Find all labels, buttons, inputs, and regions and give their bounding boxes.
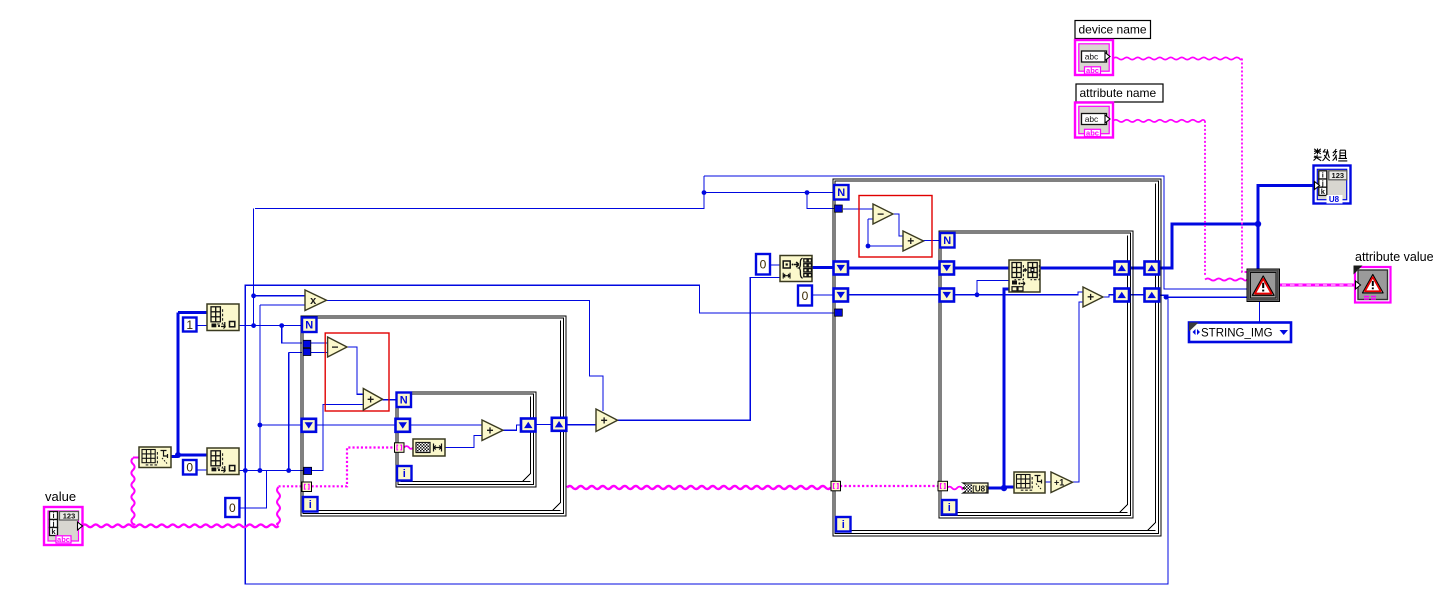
svg-text:−: − <box>331 340 338 354</box>
wire vertical x253 <box>253 209 255 326</box>
wire pink value out <box>82 524 279 527</box>
wire thick row268 c <box>1040 267 1115 270</box>
add node loop2 <box>903 231 924 251</box>
wire plus2 out to inner N <box>924 240 941 242</box>
wire pink vertical to tunnel <box>277 487 280 525</box>
constant 0 c <box>756 254 770 275</box>
wire adder out to initialize array <box>618 278 781 421</box>
iteration terminal i loop2 <box>836 517 851 532</box>
string length node <box>413 439 445 456</box>
svg-text:abc: abc <box>1085 114 1099 124</box>
wire const0d to tunnel <box>812 294 834 296</box>
wire thick to index2 <box>178 454 207 457</box>
wire inner tunnel to outer tunnel <box>536 424 552 426</box>
wire pink dashed output <box>1279 283 1354 286</box>
svg-text:+: + <box>486 423 493 437</box>
wire vertical x288 <box>288 353 290 471</box>
count terminal N inner1 <box>397 393 412 408</box>
tunnel out loop2 row295 <box>1145 289 1160 302</box>
svg-text:device name: device name <box>1079 23 1147 37</box>
svg-text:+1: +1 <box>1054 477 1064 487</box>
wire thick to array indicator <box>1258 186 1313 225</box>
initialize array node <box>780 256 812 282</box>
svg-text:i: i <box>403 468 406 480</box>
wire plus2 bottom input <box>868 245 903 247</box>
svg-text:0: 0 <box>802 289 809 303</box>
wire add2 bottom feed <box>1072 302 1083 482</box>
wire thick u8 out <box>988 487 1004 490</box>
wire pink to string length <box>404 446 413 449</box>
svg-text:abc: abc <box>57 535 70 544</box>
for-loop outer left <box>301 316 566 516</box>
multiply node <box>305 290 327 311</box>
svg-text:i: i <box>842 519 845 531</box>
tunnel in loop2 row268 <box>834 262 849 275</box>
svg-text:abc: abc <box>1086 66 1099 75</box>
wire bottom long return <box>245 297 1168 584</box>
array convert node left <box>139 447 171 468</box>
node junction g <box>243 468 248 473</box>
increment node <box>1051 472 1073 493</box>
wire minus1 out to plus1 <box>347 347 363 394</box>
svg-text:x: x <box>310 295 317 307</box>
wire thick right exit to junction <box>1158 224 1258 268</box>
control value <box>44 489 83 545</box>
svg-text:abc: abc <box>1086 129 1099 138</box>
string to byte array node <box>963 483 988 493</box>
svg-text:value: value <box>45 489 76 504</box>
wire strlen out to add bottom <box>445 436 482 448</box>
svg-text:+: + <box>601 413 608 427</box>
for-loop inner left <box>396 392 536 487</box>
node junction l <box>1001 485 1007 491</box>
node junction k <box>866 244 871 249</box>
wire row y192 into loop2 N <box>704 192 834 194</box>
subtract node loop2 <box>873 204 893 224</box>
add node inner2 <box>1083 287 1103 307</box>
wire const0 to index2 <box>197 469 208 471</box>
add node after loop1 <box>596 409 618 432</box>
add node inner1 <box>482 420 503 441</box>
svg-text:+: + <box>367 392 374 406</box>
wire shiftreg1 feed <box>282 326 302 343</box>
wire thick variant-array out <box>171 455 178 458</box>
wire thick vertical x178 <box>177 313 180 456</box>
indicator shuzu array <box>1314 149 1351 205</box>
tunnel out loop1 right <box>552 418 567 431</box>
svg-text:STRING_IMG: STRING_IMG <box>1201 327 1273 339</box>
wire tunnel out to variant lower input <box>1158 295 1247 297</box>
tunnel in loop2 row295 <box>834 289 849 302</box>
node junction d <box>258 423 263 428</box>
wire thick init out <box>812 266 834 269</box>
tunnel out inner2 row295 <box>1115 289 1130 302</box>
svg-text:[U8]: [U8] <box>972 484 988 493</box>
tunnel in inner2 row268 <box>940 262 955 275</box>
wire enum to variant <box>1258 301 1260 322</box>
wire transpose2 out to plus-one <box>1045 481 1051 483</box>
wire index2 out row <box>239 470 304 472</box>
wire pink inside loop2 <box>840 485 938 487</box>
wire pink between loops <box>567 486 831 489</box>
wire vertical x704 connector <box>703 176 705 209</box>
svg-text:abc: abc <box>1085 51 1099 61</box>
svg-text:0: 0 <box>229 501 236 515</box>
wire x-bottom input <box>260 304 305 306</box>
iteration terminal i inner1 <box>397 466 412 481</box>
wire const0b rail <box>239 471 266 509</box>
wire shiftreg to minus2 top <box>843 208 873 210</box>
node junction b <box>251 323 256 328</box>
wire shiftreg3 to plus1 bottom <box>312 404 363 470</box>
constant 0 d <box>798 286 812 306</box>
svg-text:i: i <box>948 502 951 514</box>
node junction j <box>975 292 980 297</box>
iteration terminal i loop1 <box>303 497 318 512</box>
enum constant STRING_IMG <box>1189 323 1291 343</box>
wire vertical x260 <box>259 305 261 471</box>
wire index1 out row <box>239 325 302 327</box>
wire outer tunnel to adder bottom <box>567 424 596 426</box>
wire thick to transpose2 <box>1004 486 1014 489</box>
constant 0 a <box>183 460 197 475</box>
wire tunnel row y425 inner to add <box>410 424 482 426</box>
count terminal N inner2 <box>940 233 955 248</box>
wire const1 to index1 <box>196 325 207 327</box>
red frame loop2 <box>859 196 932 258</box>
wire pink device name <box>1113 57 1242 59</box>
wire x807 branch to shift register <box>807 193 834 209</box>
wire pink device vertical <box>1242 59 1247 273</box>
wire minus1 top input <box>310 342 328 344</box>
tunnel in loop1 left <box>302 419 317 432</box>
wire pink into node <box>133 457 139 459</box>
node junction i <box>805 190 810 195</box>
wire row y285 to loop2 lower shift reg <box>245 285 834 470</box>
shift register loop2 a <box>835 205 843 212</box>
svg-text:N: N <box>837 187 845 199</box>
wire row295 inside loop2 b <box>954 292 1083 295</box>
wire thick row268 d <box>1129 267 1145 270</box>
wire top row y176 loop1-to-right <box>704 176 1247 289</box>
count terminal N loop2 <box>834 185 849 200</box>
wire thick to index1 <box>178 311 207 314</box>
tunnel out inner1 right <box>521 419 536 432</box>
svg-text:123: 123 <box>1332 171 1345 180</box>
replace array subset node <box>1009 260 1040 292</box>
node junction a <box>251 293 256 298</box>
wire multiply out to adder top <box>327 300 604 411</box>
wire pink attribute to variant <box>1205 278 1247 280</box>
wire minus1 bottom input <box>310 352 328 354</box>
wire thick row268 a <box>848 267 940 270</box>
svg-text:+: + <box>907 234 914 248</box>
indicator attribute value <box>1354 250 1434 303</box>
wire minus2 out to plus2 <box>893 214 903 236</box>
red frame loop1 <box>325 333 389 411</box>
wire pink attribute name <box>1113 120 1205 122</box>
tunnel in inner1 left <box>396 419 411 432</box>
svg-text:1: 1 <box>186 318 193 332</box>
tunnel out inner2 row268 <box>1115 262 1130 275</box>
wire tunnel row y425 outer-inner <box>316 424 396 426</box>
svg-text:−: − <box>877 207 884 221</box>
svg-text:+: + <box>1087 290 1094 304</box>
wire minus2 bottom feed vertical <box>867 219 869 246</box>
wire row y208 from loop1 area <box>255 176 704 209</box>
node junction n <box>1164 295 1169 300</box>
for-loop inner right <box>939 231 1133 518</box>
index array node 1 <box>207 304 239 331</box>
tunnel in inner2 row295 <box>940 289 955 302</box>
wire row295 inside loop2 a <box>848 294 940 296</box>
svg-text:i: i <box>309 499 312 511</box>
wire pink to u8 node <box>947 487 963 490</box>
shift register loop1 a <box>303 340 311 347</box>
wire pink into loop1 tunnel <box>279 485 303 487</box>
control attribute name <box>1075 84 1163 138</box>
svg-text:attribute value: attribute value <box>1355 250 1434 264</box>
shift register loop1 b <box>303 348 311 355</box>
tunnel pink loop1 <box>302 482 312 492</box>
svg-text:0: 0 <box>186 461 193 475</box>
node junction h <box>702 190 707 195</box>
node junction m <box>1255 221 1261 227</box>
wire pink inside loop1 <box>312 448 396 487</box>
tunnel pink inner2 <box>938 481 948 491</box>
wire thick to variant top <box>1257 224 1260 269</box>
node junction e <box>258 468 263 473</box>
svg-text:123: 123 <box>63 512 76 521</box>
iteration terminal i inner2 <box>942 500 957 515</box>
wire shiftreg2 feed <box>289 352 302 354</box>
array convert node right <box>1014 472 1045 493</box>
node junction o <box>175 452 181 458</box>
svg-text:attribute name: attribute name <box>1080 86 1157 100</box>
wire plus1 out to inner N <box>383 399 396 401</box>
wire thick row268 b <box>954 267 1009 270</box>
wire replace index input <box>977 281 1009 295</box>
wire pink branch to variant-to-array <box>131 458 134 525</box>
shift register loop1 c <box>304 467 312 474</box>
node junction f <box>286 468 291 473</box>
control device name <box>1075 21 1151 76</box>
wire inner-outer tunnel row295 <box>1129 294 1145 296</box>
wire const0c to init <box>770 264 780 266</box>
wire add2 out to tunnel <box>1103 295 1115 297</box>
wire x-top input <box>254 295 305 297</box>
wire minus2 bottom input <box>868 218 873 220</box>
svg-text:U8: U8 <box>1329 195 1340 204</box>
constant 0 b <box>225 498 239 517</box>
svg-text:N: N <box>943 235 951 247</box>
node junction c <box>279 323 284 328</box>
svg-text:N: N <box>305 320 313 332</box>
shift register loop2 b <box>835 309 843 316</box>
svg-text:0: 0 <box>760 258 767 272</box>
variant to data node <box>1247 269 1280 302</box>
wire tunnel-in feed y425 <box>260 424 302 426</box>
count terminal N loop1 <box>302 318 317 333</box>
wire add out to inner tunnel <box>503 425 521 430</box>
subtract node loop1 <box>328 337 347 357</box>
index array node 2 <box>207 448 239 475</box>
wire pink attribute vertical <box>1204 121 1206 276</box>
tunnel pink inner1 <box>395 443 405 453</box>
svg-text:N: N <box>400 395 408 407</box>
constant 1 <box>183 318 197 332</box>
for-loop outer right <box>833 179 1161 536</box>
wire thick vertical to replace element <box>1004 289 1009 488</box>
add node loop1 <box>363 389 382 411</box>
tunnel out loop2 row268 <box>1145 262 1160 275</box>
tunnel pink loop2 <box>831 481 841 491</box>
